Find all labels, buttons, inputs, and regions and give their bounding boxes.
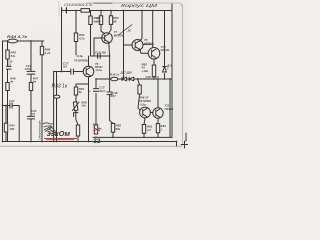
node dot ib2 (112, 137, 114, 139)
wire R43 branch (5, 106, 7, 142)
svg-text:С15 Ю63Ю9 4,7к: С15 Ю63Ю9 4,7к (64, 3, 92, 7)
svg-text:600: 600 (96, 19, 101, 23)
node dot h5 (109, 55, 111, 57)
resistor R46 (6, 83, 9, 91)
capacitor C22 (10, 103, 12, 108)
node dot bot5 (77, 141, 79, 143)
frame bottom light (0, 145, 182, 147)
wire node v123 (123, 11, 125, 80)
svg-text:33кОм: 33кОм (47, 129, 71, 138)
node dot mid2 (153, 78, 155, 80)
diode D19 (129, 77, 134, 81)
svg-text:-3,9в: -3,9в (139, 103, 146, 107)
svg-text:+12в: +12в (142, 69, 149, 73)
capacitor C16 (98, 54, 101, 59)
wire node v90 (90, 11, 92, 57)
wire node v42 (41, 41, 43, 142)
node dot c22a (2, 105, 4, 107)
node dot h3a (95, 78, 97, 80)
wire v76 low (74, 111, 78, 142)
diode D17 (122, 77, 127, 81)
node dot mid3 (157, 78, 159, 80)
resistor R50 (74, 33, 77, 42)
svg-text:51к: 51к (11, 54, 16, 58)
node dot mid1 (137, 78, 139, 80)
resistor R46b (89, 16, 92, 25)
svg-text:С20 500,0: С20 500,0 (146, 75, 160, 79)
wire node v7 (7, 41, 9, 142)
svg-text:8к: 8к (79, 90, 83, 94)
frame right light (182, 5, 184, 145)
node dot bus3 (110, 10, 112, 12)
wire stub r54 (109, 11, 111, 33)
svg-text:4,7к: 4,7к (78, 36, 85, 40)
resistor R16 oval (111, 77, 118, 81)
svg-text:4,7: 4,7 (146, 128, 151, 132)
resistor R33b (94, 125, 97, 134)
wire mid bus (96, 78, 172, 80)
svg-text:П214Б: П214Б (161, 48, 170, 52)
resistor R63 (156, 124, 159, 133)
wire C22 branch (3, 105, 20, 107)
wire r63 low (157, 133, 159, 138)
node dot bus2 (100, 10, 102, 12)
wire left vertical (2, 41, 4, 142)
wire node v53 (53, 72, 55, 142)
wire T8 base (124, 44, 133, 46)
capacitor C19 (93, 89, 98, 92)
resistor R56 (138, 85, 141, 94)
wire node v170 (169, 79, 171, 137)
node dot bot8 (176, 141, 178, 143)
transistor T10 (148, 48, 160, 60)
svg-text:0,5: 0,5 (31, 112, 35, 116)
svg-text:1,2к: 1,2к (45, 51, 51, 55)
svg-text:С22: С22 (9, 99, 15, 103)
wire node v137 (138, 79, 140, 85)
scan fold line (58, 2, 60, 17)
resistor R45 (6, 50, 9, 59)
resistor R48 (40, 46, 43, 54)
resistor R44 (8, 39, 18, 43)
resistor R58 trimmer (73, 102, 80, 111)
svg-text:26: 26 (127, 29, 132, 33)
wire r56 to T9 (138, 94, 140, 110)
wire T8 to v152 (143, 43, 153, 45)
frame inner dark vertical (171, 4, 173, 138)
node dot bus5 (141, 10, 143, 12)
wire r61 low (143, 133, 145, 137)
svg-text:МП40А: МП40А (144, 41, 154, 45)
wire cap to T5 (73, 71, 83, 73)
wire T8 emitter to T10 (140, 49, 149, 54)
svg-text:R17: R17 (111, 94, 117, 98)
node dot mid4 (164, 78, 166, 80)
wire T7 base (94, 38, 105, 56)
svg-text:32: 32 (93, 138, 101, 145)
transistor T11 (153, 108, 163, 118)
wire node v31 (30, 41, 32, 142)
node dot bus6 (152, 10, 154, 12)
svg-text:R16 1к: R16 1к (110, 72, 120, 76)
wire node v152 (152, 11, 154, 48)
wire jog r51 (76, 83, 89, 85)
wire stub r52 (101, 11, 105, 34)
resistor R55 (111, 123, 114, 132)
node dot c22b (5, 105, 7, 107)
registration cross (181, 133, 188, 148)
wire T10 emitter (153, 59, 155, 65)
node dot y41a (7, 40, 9, 42)
svg-text:МП37Б: МП37Б (114, 34, 124, 38)
wire T9 to T11 (150, 112, 152, 114)
pencil scribble (43, 123, 56, 135)
svg-text:Д17 Д18: Д17 Д18 (120, 71, 133, 75)
wire node v164 (164, 11, 166, 80)
resistor R43 (4, 123, 7, 132)
frame top light (86, 3, 182, 6)
node dot bot6 (88, 141, 90, 143)
wire h5 (91, 55, 110, 57)
capacitor C20 (6, 66, 11, 69)
wire node v19 (18, 106, 20, 142)
node dot t8 (152, 44, 154, 46)
wire node v76 (75, 11, 77, 103)
svg-text:П214А: П214А (165, 107, 174, 111)
resistor R49 horizontal on bus (81, 9, 90, 13)
annotation arrow (50, 126, 57, 132)
transistor T7 (102, 33, 113, 44)
resistor R59 oval (54, 95, 60, 98)
wire inner bottom (93, 136, 172, 138)
node dot y41b (30, 40, 32, 42)
svg-text:33к: 33к (81, 104, 86, 108)
node dot bot3 (53, 141, 55, 143)
svg-text:4к: 4к (9, 80, 14, 84)
wire r62 low (153, 77, 155, 80)
capacitor C23 (28, 116, 35, 119)
wire T7 emitter (108, 43, 111, 92)
svg-text:0,1: 0,1 (7, 63, 11, 67)
diode D18 (163, 67, 167, 73)
svg-text:R33 1к: R33 1к (52, 83, 68, 89)
resistor R51 (74, 87, 77, 95)
resistor R62 (152, 65, 155, 77)
resistor R57 (76, 125, 79, 136)
resistor R61 (142, 125, 145, 134)
svg-text:4700: 4700 (24, 67, 32, 71)
node dot bus4 (123, 10, 125, 12)
resistor R52 (99, 16, 102, 25)
svg-text:С16 300: С16 300 (95, 51, 106, 55)
node dot h4a (61, 71, 63, 73)
wire node v61 (61, 11, 63, 72)
svg-text:Корпус ЦМ: Корпус ЦМ (121, 3, 157, 8)
wire T11 emitter (157, 118, 159, 123)
wire bus tick (176, 142, 178, 147)
capacitor C21 (27, 71, 35, 74)
resistor R54 (109, 16, 112, 25)
svg-text:68к: 68к (116, 127, 121, 131)
svg-text:Синхронизация: Синхронизация (38, 120, 42, 140)
wire input top (3, 40, 44, 42)
svg-text:50,0: 50,0 (99, 89, 105, 93)
wire bottom bus (3, 141, 177, 143)
annotation diagonal (119, 25, 133, 36)
svg-text:R44 4,7к: R44 4,7к (7, 35, 28, 39)
red scribble r33 (94, 128, 101, 132)
node dot bus1 (75, 10, 77, 12)
transistor T8 (132, 40, 143, 51)
transistor T9 (140, 107, 151, 118)
node dot bot7 (2, 141, 4, 143)
svg-text:4в: 4в (32, 80, 37, 84)
node dot bot4 (56, 141, 58, 143)
svg-text:5,0: 5,0 (63, 65, 67, 69)
transistor T5 (83, 66, 94, 77)
wire top frame stub (94, 2, 112, 4)
node dot mid5 (169, 78, 171, 80)
wire node v56 (56, 72, 58, 142)
capacitor C17s (71, 69, 74, 74)
red underline (44, 138, 77, 139)
node dot bot2 (41, 141, 43, 143)
svg-text:Т5 МП39Б: Т5 МП39Б (74, 58, 88, 62)
svg-text:68: 68 (113, 19, 117, 23)
wire T8 collector (140, 11, 143, 42)
resistor R47 (29, 83, 32, 91)
wire node v96 (95, 79, 97, 125)
wire T11 collector (157, 79, 159, 108)
svg-text:150: 150 (9, 127, 14, 131)
wire T5 emitter (88, 77, 90, 142)
wire T5 collector (88, 56, 90, 66)
svg-text:-0,2в: -0,2в (95, 68, 102, 72)
wire r55 low (110, 100, 113, 138)
capacitor C18 (107, 92, 112, 95)
wire v109 low (109, 95, 111, 100)
wire h4 (54, 71, 71, 73)
wire T9 emitter (144, 118, 145, 125)
node dot bot1 (30, 141, 32, 143)
node dot ib1 (95, 137, 97, 139)
wire top bus (62, 10, 172, 12)
connector X1 (62, 8, 67, 13)
